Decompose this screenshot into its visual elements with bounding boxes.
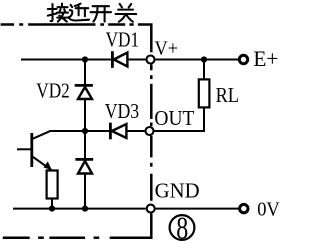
junction node RL top bbox=[201, 56, 207, 62]
terminal GND bbox=[147, 205, 155, 213]
svg-text:E+: E+ bbox=[253, 46, 278, 71]
emitter bbox=[33, 157, 53, 171]
wire: GND to 0V bbox=[156, 208, 239, 210]
wire: R bottom lead bbox=[51, 199, 53, 209]
char 接 bbox=[51, 4, 53, 21]
diode D4 (lower, pointing up, unlabeled) bbox=[75, 159, 93, 173]
diode VD3 bbox=[110, 123, 126, 140]
dash-dot enclosure border: bottom-right corner into bottom side bbox=[110, 213, 152, 237]
wire: vertical bus through VD2 bbox=[84, 60, 86, 209]
svg-text:V+: V+ bbox=[155, 37, 179, 59]
transistor emitter arrow bbox=[44, 161, 52, 170]
resistor R (emitter) bbox=[47, 171, 58, 199]
char 开 bbox=[93, 5, 109, 7]
char 近 bbox=[75, 4, 81, 6]
label 接近开关 (proximity switch title) bbox=[48, 4, 136, 22]
base lead bbox=[17, 148, 31, 150]
dash-dot enclosure border: top-right corner into right side bbox=[138, 25, 151, 53]
transistor Q1 bbox=[17, 131, 52, 170]
wire: OUT line left part (collector to OUT terminal) bbox=[49, 130, 145, 132]
wire: RL top lead bbox=[203, 60, 205, 80]
figure number badge circle 8 bbox=[170, 215, 195, 240]
svg-text:RL: RL bbox=[216, 83, 239, 107]
dash-dot enclosure border: right segment V+ to OUT bbox=[150, 64, 153, 126]
char 关 bbox=[120, 4, 122, 7]
dash-dot enclosure border: bottom bbox=[3, 236, 99, 239]
svg-text:0V: 0V bbox=[257, 199, 280, 221]
wire: OUT terminal to RL bottom corner bbox=[155, 108, 205, 132]
resistor RL bbox=[199, 79, 210, 107]
terminal 0V bbox=[240, 204, 248, 212]
terminal V+ bbox=[147, 56, 155, 64]
svg-text:GND: GND bbox=[155, 179, 200, 203]
wire: top supply rail inside bbox=[21, 59, 146, 61]
svg-text:VD3: VD3 bbox=[105, 99, 140, 123]
wire: GND rail bbox=[13, 208, 146, 210]
terminal E+ bbox=[239, 55, 247, 63]
junction node on top rail (vertical bus) bbox=[82, 56, 88, 62]
svg-text:8: 8 bbox=[176, 210, 188, 244]
diode VD1 bbox=[112, 51, 127, 68]
junction node bus / GND rail bbox=[82, 206, 88, 212]
dash-dot enclosure border: right segment OUT to GND bbox=[150, 136, 153, 201]
dash-dot enclosure border: top bbox=[1, 23, 134, 26]
base bar bbox=[30, 133, 33, 167]
junction node R bottom bbox=[49, 206, 55, 212]
svg-text:OUT: OUT bbox=[154, 106, 194, 130]
svg-text:VD2: VD2 bbox=[36, 79, 70, 103]
junction node OUT line / bus bbox=[82, 128, 88, 134]
svg-text:VD1: VD1 bbox=[106, 28, 140, 52]
diode VD2 (zener, pointing up) bbox=[75, 85, 93, 99]
wire: V+ to E+ bbox=[155, 59, 238, 61]
collector bbox=[33, 131, 50, 139]
terminal OUT bbox=[146, 127, 154, 135]
